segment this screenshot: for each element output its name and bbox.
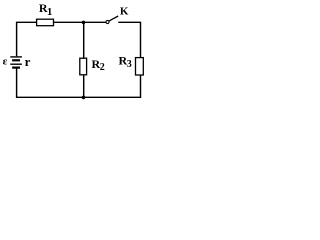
svg-text:2: 2 (100, 62, 105, 73)
svg-text:K: K (120, 6, 129, 18)
resistor R1 (37, 19, 54, 26)
wire top-left (corner to R1 left lead) (17, 22, 37, 56)
svg-text:ε: ε (3, 56, 8, 68)
svg-text:r: r (25, 54, 31, 69)
resistor R2 (80, 58, 87, 75)
svg-text:3: 3 (127, 59, 132, 70)
wire R1 right to switch (53, 21, 106, 23)
resistor R3 (136, 58, 144, 75)
wire R3 bottom to bottom-right corner (84, 75, 141, 97)
battery cell plate long 2 (10, 63, 22, 65)
switch K pivot circle (106, 20, 109, 23)
battery cell plate long 1 (10, 56, 22, 58)
wire top dot down to R2 (83, 22, 85, 58)
battery cell plate short 1 (12, 59, 20, 61)
wire switch to top-right corner (118, 22, 140, 57)
svg-text:1: 1 (47, 6, 53, 18)
switch K blade (109, 16, 118, 21)
node junction dot bottom (82, 96, 86, 100)
wire battery bottom to bottom-left corner (17, 68, 84, 97)
battery cell plate short 2 (12, 66, 20, 68)
node junction dot top (R2 branch) (82, 21, 86, 25)
wire R2 bottom to bottom junction dot (83, 75, 85, 98)
